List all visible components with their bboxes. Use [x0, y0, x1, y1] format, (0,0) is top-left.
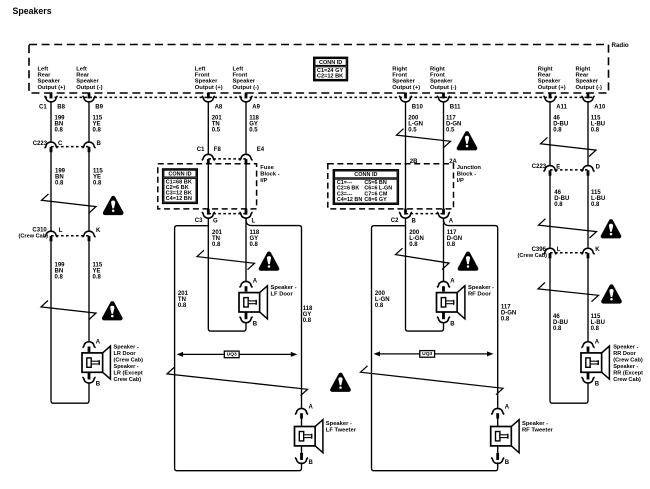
- twisted pair symbol (LF tweeter loop): [167, 368, 308, 396]
- svg-text:0.8: 0.8: [591, 127, 600, 133]
- svg-text:Speaker -: Speaker -: [326, 421, 352, 427]
- svg-text:Front: Front: [392, 73, 407, 79]
- svg-text:0.8: 0.8: [447, 242, 456, 248]
- svg-text:(Crew Cab): (Crew Cab): [19, 233, 49, 239]
- svg-text:A: A: [449, 219, 454, 225]
- speaker LF door pins A/B: [239, 279, 257, 328]
- svg-text:(Crew Cab): (Crew Cab): [114, 357, 144, 363]
- radio output label: Right Front Speaker Output (-): [430, 67, 456, 91]
- svg-text:D: D: [596, 164, 601, 170]
- connector C310 label: [19, 227, 49, 239]
- svg-text:Fuse: Fuse: [260, 165, 274, 171]
- svg-text:C1=---: C1=---: [337, 180, 353, 186]
- svg-text:YE: YE: [93, 268, 101, 274]
- svg-text:B: B: [505, 460, 510, 466]
- svg-text:200: 200: [375, 291, 386, 297]
- svg-text:Speaker: Speaker: [392, 79, 415, 85]
- svg-text:BN: BN: [55, 175, 64, 181]
- svg-text:117: 117: [501, 305, 511, 311]
- svg-text:C3=---: C3=---: [337, 191, 353, 197]
- title: [13, 6, 52, 16]
- svg-text:115: 115: [591, 115, 601, 121]
- wire 201 TN inside fuse block: [207, 164, 209, 209]
- wire label 200 L-GN 0.5: [408, 115, 423, 133]
- warning triangle (right rear lower): [601, 284, 622, 303]
- svg-text:Junction: Junction: [457, 165, 482, 171]
- svg-text:0.8: 0.8: [501, 317, 510, 323]
- speaker LR label: [114, 344, 144, 383]
- wire 200 L-GN (B down to RF door B loop): [405, 219, 407, 329]
- UQ3 option arrow (right): [374, 351, 494, 358]
- radio output label: Right Rear Speaker Output (+): [538, 67, 566, 91]
- fuse block connector dotted line: [208, 158, 246, 160]
- connector C3 pin G: [202, 209, 218, 225]
- twisted pair symbol (RF tweeter loop): [361, 366, 504, 395]
- wire RR speaker B loop: [550, 383, 588, 403]
- wire 200 L-GN branch tee to left: [372, 226, 406, 469]
- wire label 199 BN 0.8 (upper): [55, 115, 66, 133]
- junction block I/P box (dashed): [328, 164, 454, 209]
- svg-text:Rear: Rear: [538, 73, 552, 79]
- wire label 117 D-GN 0.5: [446, 115, 461, 133]
- wire label 118 GY 0.8 (below C3): [250, 230, 260, 248]
- wire 199 BN segment (B8 to C223): [50, 102, 52, 141]
- svg-text:L-GN: L-GN: [409, 236, 424, 242]
- svg-text:Block -: Block -: [260, 172, 279, 178]
- speaker RF tweeter pins A/B: [491, 405, 510, 467]
- svg-text:RR Door: RR Door: [613, 351, 637, 357]
- radio connector pin A11: [543, 93, 567, 111]
- svg-text:B8: B8: [57, 104, 65, 110]
- wire 117 D-GN segment (B11 to junction block): [443, 102, 445, 164]
- warning triangle (right rear upper): [601, 219, 622, 238]
- connector C310 dotted line: [51, 235, 89, 237]
- warning triangle (center): [330, 373, 351, 392]
- radio output label: Left Front Speaker Output (+): [195, 67, 223, 91]
- svg-text:Speaker -: Speaker -: [522, 421, 548, 427]
- svg-text:199: 199: [55, 115, 66, 121]
- fuse block connector pin F8: [202, 147, 222, 164]
- radio connector pin A9: [239, 93, 260, 111]
- svg-text:B11: B11: [450, 104, 461, 110]
- svg-text:199: 199: [55, 169, 66, 175]
- speaker LF door symbol: [239, 286, 267, 319]
- svg-text:Speaker -: Speaker -: [271, 285, 297, 291]
- svg-text:B: B: [96, 382, 101, 388]
- wire label 115 L-BU 0.8 (middle): [591, 190, 605, 208]
- svg-text:L-BU: L-BU: [591, 320, 605, 326]
- speaker LR pins A/B: [82, 339, 100, 387]
- connector C3 dotted line: [208, 213, 246, 215]
- svg-text:TN: TN: [178, 297, 186, 303]
- svg-text:A10: A10: [594, 104, 606, 110]
- warning triangle (left rear lower): [102, 301, 123, 320]
- svg-text:46: 46: [553, 314, 560, 320]
- svg-text:Left: Left: [38, 67, 49, 73]
- svg-text:D-GN: D-GN: [501, 311, 516, 317]
- radio connector pin B11: [437, 93, 461, 111]
- svg-text:200: 200: [409, 230, 420, 236]
- svg-text:L: L: [557, 247, 561, 253]
- wire label 46 D-BU 0.8 (middle): [554, 190, 569, 208]
- svg-text:115: 115: [591, 314, 601, 320]
- wire 118 GY inside fuse block: [245, 164, 247, 209]
- twisted pair symbol (right rear middle): [539, 219, 597, 238]
- svg-text:Speaker -: Speaker -: [114, 344, 139, 350]
- svg-text:199: 199: [55, 262, 66, 268]
- wire 115 L-BU segment (C223 to C396): [587, 176, 589, 249]
- speaker RF door pins A/B: [437, 279, 455, 328]
- svg-text:CONN ID: CONN ID: [354, 172, 377, 178]
- svg-text:Output (-): Output (-): [576, 85, 602, 91]
- wire RF door B loop: [406, 323, 444, 331]
- svg-text:Speaker: Speaker: [195, 79, 218, 85]
- radio connector pin B9: [82, 93, 103, 111]
- twisted pair symbol (left rear upper): [42, 194, 97, 213]
- wire 201 TN (G down to LF door B loop): [207, 219, 209, 329]
- wire label 118 GY 0.5: [249, 115, 259, 133]
- svg-text:Front: Front: [430, 73, 445, 79]
- connector C223 pin D: [581, 164, 600, 175]
- speaker LF tweeter symbol: [295, 420, 323, 453]
- connector C396 dotted line: [550, 252, 588, 254]
- svg-text:Rear: Rear: [76, 73, 90, 79]
- wire 46 D-BU segment (A11 to C223): [549, 102, 551, 165]
- svg-text:CONN ID: CONN ID: [319, 60, 342, 66]
- svg-text:C7=6 CM: C7=6 CM: [364, 191, 387, 197]
- speaker RF door symbol: [437, 286, 465, 319]
- svg-text:Speaker: Speaker: [430, 79, 453, 85]
- svg-text:201: 201: [178, 291, 189, 297]
- wire 118 GY segment (A9 to fuse block): [245, 102, 247, 154]
- svg-text:L-BU: L-BU: [591, 121, 605, 127]
- svg-text:I/P: I/P: [457, 178, 464, 184]
- connector C223 pin E: [543, 164, 560, 175]
- svg-text:201: 201: [212, 230, 223, 236]
- speaker LF tweeter label: [326, 421, 357, 434]
- connector C223 dotted line (right): [550, 169, 588, 171]
- svg-text:Output (-): Output (-): [76, 85, 102, 91]
- wire label 201 TN 0.5: [212, 115, 223, 133]
- svg-text:RF Tweeter: RF Tweeter: [522, 427, 554, 433]
- twisted pair symbol (right rear lower): [538, 283, 599, 302]
- svg-text:0.8: 0.8: [409, 242, 418, 248]
- svg-text:CONN ID: CONN ID: [168, 171, 191, 177]
- svg-text:Right: Right: [576, 67, 591, 73]
- svg-text:GY: GY: [250, 236, 259, 242]
- svg-text:GY: GY: [303, 312, 312, 318]
- svg-text:Crew Cab): Crew Cab): [613, 377, 641, 383]
- svg-text:A: A: [595, 339, 600, 345]
- svg-text:I/P: I/P: [260, 178, 267, 184]
- wire 199 BN segment (C223 to C310): [50, 152, 52, 231]
- svg-text:LR Door: LR Door: [114, 351, 137, 357]
- svg-text:Speaker: Speaker: [76, 79, 99, 85]
- svg-text:Left: Left: [233, 67, 244, 73]
- wire 201 TN segment (A8 to fuse block): [207, 102, 209, 154]
- svg-text:C6=6 L-GN: C6=6 L-GN: [364, 186, 392, 192]
- svg-text:Output (+): Output (+): [195, 85, 223, 91]
- wire LF tweeter B loop: [175, 462, 302, 470]
- radio output label: Left Front Speaker Output (-): [233, 67, 259, 91]
- radio CONN ID table: [314, 57, 348, 80]
- svg-text:D-GN: D-GN: [447, 236, 462, 242]
- svg-text:201: 201: [212, 115, 223, 121]
- connector C310 pin K: [82, 228, 101, 241]
- wire label 115 YE 0.8 (upper): [93, 115, 103, 133]
- svg-text:A8: A8: [215, 104, 223, 110]
- wire label 115 YE 0.8 (middle): [93, 169, 103, 187]
- svg-text:LF Door: LF Door: [271, 292, 294, 298]
- svg-text:A9: A9: [252, 104, 260, 110]
- svg-text:0.8: 0.8: [303, 318, 312, 324]
- radio box (dashed outline): [29, 45, 609, 94]
- svg-text:D-BU: D-BU: [553, 320, 568, 326]
- connector C396 pin L: [543, 247, 560, 258]
- svg-text:0.8: 0.8: [55, 127, 64, 133]
- svg-text:0.5: 0.5: [212, 127, 221, 133]
- twisted pair symbol (right rear upper): [541, 137, 597, 156]
- speaker LF tweeter pins A/B: [295, 405, 314, 467]
- svg-text:RR (Except: RR (Except: [613, 370, 643, 376]
- svg-text:(Crew Cab): (Crew Cab): [518, 253, 548, 259]
- svg-text:0.8: 0.8: [250, 242, 259, 248]
- svg-text:A: A: [505, 405, 510, 411]
- svg-text:C4=12 BN: C4=12 BN: [337, 197, 362, 203]
- svg-text:C3: C3: [195, 218, 203, 224]
- svg-text:L-GN: L-GN: [375, 297, 390, 303]
- radio output label: Left Rear Speaker Output (-): [76, 67, 102, 91]
- svg-text:C2=12 BK: C2=12 BK: [317, 73, 343, 79]
- connector C310 pin L: [44, 228, 62, 241]
- svg-text:BN: BN: [55, 121, 64, 127]
- svg-text:YE: YE: [93, 175, 101, 181]
- svg-text:Output (-): Output (-): [430, 85, 456, 91]
- svg-text:A: A: [450, 279, 455, 285]
- svg-text:0.8: 0.8: [553, 326, 562, 332]
- svg-text:L-BU: L-BU: [591, 196, 605, 202]
- svg-text:TN: TN: [212, 236, 220, 242]
- svg-text:L-GN: L-GN: [408, 121, 423, 127]
- svg-text:118: 118: [303, 306, 313, 312]
- connector C223 pin B: [82, 141, 101, 152]
- svg-text:46: 46: [553, 115, 560, 121]
- svg-text:Speaker -: Speaker -: [613, 344, 638, 350]
- svg-text:E: E: [556, 164, 560, 170]
- connector C223 label: [33, 141, 48, 147]
- svg-text:Speaker: Speaker: [576, 79, 599, 85]
- wire RF tweeter B loop: [372, 462, 498, 470]
- wire label 118 GY 0.8 (tweeter feed): [303, 306, 313, 324]
- wire 115 YE segment (C310 to LR speaker): [88, 241, 90, 341]
- speaker RR (door) symbol: [581, 346, 609, 379]
- svg-text:Block -: Block -: [457, 172, 476, 178]
- connector C223 pin C: [44, 141, 63, 152]
- svg-text:Output (-): Output (-): [233, 85, 259, 91]
- wire 200 L-GN inside junction block: [405, 164, 407, 209]
- svg-text:Front: Front: [233, 73, 248, 79]
- wire 46 D-BU segment (C396 down to loop): [549, 258, 551, 401]
- svg-text:D-BU: D-BU: [553, 121, 568, 127]
- connector C2 pin B: [399, 209, 417, 225]
- wire label 200 L-GN 0.8 (branch): [375, 291, 390, 309]
- svg-text:YE: YE: [93, 121, 101, 127]
- radio output label: Right Front Speaker Output (+): [392, 67, 420, 91]
- wire 115 L-BU segment (C396 to RR speaker): [587, 258, 589, 341]
- svg-text:0.8: 0.8: [178, 303, 187, 309]
- svg-text:115: 115: [93, 169, 103, 175]
- svg-text:C2=6 BK: C2=6 BK: [166, 185, 189, 191]
- svg-text:E4: E4: [257, 147, 265, 153]
- svg-text:C310: C310: [32, 227, 47, 233]
- svg-text:0.8: 0.8: [553, 127, 562, 133]
- fuse block label: [260, 165, 279, 184]
- svg-text:0.8: 0.8: [554, 202, 563, 208]
- wire 117 D-GN (A down to RF door A): [443, 219, 445, 282]
- speaker RR pins A/B: [581, 339, 599, 387]
- wire label 115 L-BU 0.8 (upper): [591, 115, 605, 133]
- junction block pin 2A: [449, 159, 457, 165]
- svg-text:C8=6 GY: C8=6 GY: [364, 197, 387, 203]
- connector C1 label (radio): [39, 104, 47, 110]
- radio output label: Right Rear Speaker Output (-): [576, 67, 602, 91]
- speaker RF tweeter symbol: [491, 420, 519, 453]
- wire label 117 D-GN 0.8 (below C2): [447, 230, 462, 248]
- wire 199 BN segment (C310 down to loop): [50, 241, 52, 401]
- svg-text:0.8: 0.8: [55, 181, 64, 187]
- connector C396 pin K: [581, 247, 600, 258]
- svg-text:Left: Left: [195, 67, 206, 73]
- svg-text:Radio: Radio: [612, 42, 629, 49]
- svg-text:0.8: 0.8: [591, 326, 600, 332]
- svg-text:C2: C2: [391, 218, 399, 224]
- wire label 117 D-GN 0.8 (tweeter feed): [501, 305, 516, 323]
- fuse block I/P box (dashed): [158, 164, 257, 209]
- svg-text:Rear: Rear: [38, 73, 52, 79]
- svg-text:0.8: 0.8: [212, 242, 221, 248]
- wire label 200 L-GN 0.8 (below C2): [409, 230, 424, 248]
- wire 115 YE segment (C223 to C310): [88, 152, 90, 231]
- wire label 46 D-BU 0.8 (upper): [553, 115, 568, 133]
- svg-text:A11: A11: [556, 104, 567, 110]
- svg-text:Right: Right: [538, 67, 553, 73]
- wire 201 TN branch tee to left: [175, 226, 209, 469]
- twisted pair symbol (right front upper): [397, 129, 451, 148]
- radio label: [612, 42, 629, 49]
- svg-text:0.8: 0.8: [375, 303, 384, 309]
- svg-text:C1: C1: [39, 104, 47, 110]
- svg-text:A: A: [309, 405, 314, 411]
- warning triangle (right front upper): [457, 131, 478, 150]
- svg-text:Speaker: Speaker: [38, 79, 61, 85]
- svg-text:0.8: 0.8: [55, 274, 64, 280]
- wire label 201 TN 0.8 (below C3): [212, 230, 223, 248]
- wire 118 GY (L down to LF door A): [245, 219, 247, 282]
- svg-text:Speaker: Speaker: [233, 79, 256, 85]
- svg-text:UQ3: UQ3: [422, 351, 432, 357]
- radio connector pin B8: [44, 93, 65, 111]
- svg-text:TN: TN: [212, 121, 220, 127]
- svg-text:Output (+): Output (+): [392, 85, 420, 91]
- svg-text:118: 118: [249, 115, 259, 121]
- svg-text:Speaker -: Speaker -: [613, 364, 638, 370]
- wire 46 D-BU segment (C223 to C396): [549, 176, 551, 249]
- svg-text:B: B: [309, 460, 314, 466]
- connector C2 label: [391, 218, 399, 224]
- twisted pair symbol (left front): [197, 250, 255, 270]
- svg-text:117: 117: [446, 115, 456, 121]
- svg-text:0.5: 0.5: [408, 127, 417, 133]
- svg-text:B: B: [412, 219, 417, 225]
- svg-text:K: K: [96, 228, 101, 234]
- svg-text:46: 46: [554, 190, 561, 196]
- svg-text:Speaker -: Speaker -: [468, 285, 494, 291]
- warning triangle (left rear upper): [103, 196, 124, 215]
- svg-text:B: B: [595, 382, 600, 388]
- speaker RF door label: [468, 285, 494, 298]
- radio harness connector line (dotted): [45, 96, 595, 98]
- svg-text:LF Tweeter: LF Tweeter: [326, 427, 357, 433]
- svg-text:(Crew Cab): (Crew Cab): [613, 357, 643, 363]
- svg-text:Speakers: Speakers: [13, 6, 52, 16]
- junction block pin 2B: [410, 159, 418, 165]
- svg-text:G: G: [213, 219, 218, 225]
- svg-text:115: 115: [93, 262, 103, 268]
- connector C223 dotted line: [51, 146, 89, 148]
- svg-text:Front: Front: [195, 73, 210, 79]
- svg-text:L: L: [252, 219, 256, 225]
- svg-text:BN: BN: [55, 268, 64, 274]
- radio output label: Left Rear Speaker Output (+): [38, 67, 66, 91]
- wire LF door B loop: [208, 323, 246, 331]
- svg-text:115: 115: [93, 115, 103, 121]
- wire 115 L-BU segment (A10 to C223): [587, 102, 589, 165]
- connector C1 label (fuse block): [197, 147, 205, 153]
- svg-text:0.8: 0.8: [93, 181, 102, 187]
- svg-text:Crew Cab): Crew Cab): [114, 377, 142, 383]
- svg-text:C4=12 BN: C4=12 BN: [166, 196, 192, 202]
- svg-text:K: K: [595, 247, 600, 253]
- connector C3 pin L: [239, 209, 255, 225]
- fuse block connector pin E4: [239, 147, 264, 164]
- radio connector pin A10: [581, 93, 606, 111]
- UQ3 option arrow (left): [177, 351, 298, 358]
- svg-text:Right: Right: [430, 67, 445, 73]
- connector C3 label: [195, 218, 203, 224]
- junction block label: [457, 165, 482, 184]
- svg-text:C1: C1: [197, 147, 205, 153]
- svg-text:Speaker: Speaker: [538, 79, 561, 85]
- connector C2 pin A: [437, 209, 454, 225]
- svg-text:0.8: 0.8: [93, 274, 102, 280]
- wire label 199 BN 0.8 (middle): [55, 169, 66, 187]
- speaker LF door label: [271, 285, 297, 298]
- svg-text:A: A: [253, 279, 258, 285]
- wire label 199 BN 0.8 (lower): [55, 262, 66, 280]
- svg-text:118: 118: [250, 230, 260, 236]
- wire label 201 TN 0.8 (branch): [178, 291, 189, 309]
- connector C2 dotted line: [406, 213, 444, 215]
- twisted pair symbol (left rear lower): [41, 301, 96, 320]
- wire 117 D-GN inside junction block: [443, 164, 445, 209]
- svg-text:0.8: 0.8: [93, 127, 102, 133]
- svg-text:200: 200: [408, 115, 419, 121]
- warning triangle (right front): [458, 252, 479, 271]
- svg-text:Right: Right: [392, 67, 407, 73]
- svg-text:B: B: [97, 141, 102, 147]
- svg-text:LR (Except: LR (Except: [114, 370, 143, 376]
- twisted pair symbol (right front): [396, 248, 450, 269]
